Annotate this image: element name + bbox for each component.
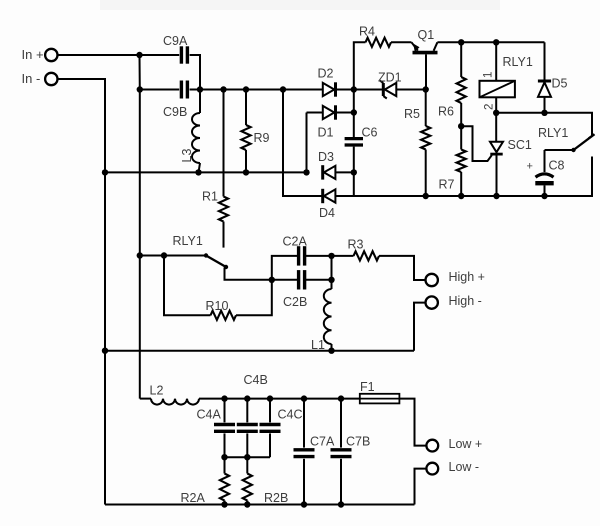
terminal High+ <box>426 270 485 286</box>
svg-text:C4A: C4A <box>197 408 222 422</box>
capacitor C2B <box>283 270 332 309</box>
relay switch RLY1 right <box>538 126 595 152</box>
node C4C top <box>267 395 273 401</box>
node L3 bottom <box>195 169 201 175</box>
resistor R2B <box>243 457 289 505</box>
svg-text:C2B: C2B <box>283 295 307 309</box>
node D2/ZD1/C6 <box>351 86 357 92</box>
node C9B left <box>137 86 143 92</box>
svg-text:Low +: Low + <box>449 437 483 451</box>
thyristor SC1 <box>490 113 532 196</box>
svg-text:R10: R10 <box>206 299 229 313</box>
capacitor C2A <box>272 235 332 280</box>
node R6 top <box>458 39 464 45</box>
svg-text:C7B: C7B <box>346 435 370 449</box>
node R6/R7 <box>458 123 464 129</box>
inductor L1 <box>311 280 332 352</box>
node C4A top <box>221 395 227 401</box>
wire AC node row <box>105 171 307 173</box>
svg-text:R2B: R2B <box>264 491 288 505</box>
node ZD1/Q1 base/R5 <box>423 86 429 92</box>
node C7B top <box>338 395 344 401</box>
node R7 bottom <box>458 193 464 199</box>
svg-text:C6: C6 <box>362 126 378 140</box>
capacitor C4A <box>197 399 236 458</box>
svg-text:ZD1: ZD1 <box>378 71 402 85</box>
node C4B top <box>244 395 250 401</box>
node C7A bottom <box>301 501 307 507</box>
svg-text:D4: D4 <box>319 206 335 220</box>
node C2B right <box>328 277 334 283</box>
capacitor C9B <box>140 81 323 120</box>
node C7B bottom <box>338 501 344 507</box>
node R10 tap <box>161 252 167 258</box>
node L1 bottom <box>328 348 334 354</box>
capacitor C8 <box>527 150 565 196</box>
svg-text:R2A: R2A <box>181 491 206 505</box>
resistor R3 <box>332 238 426 281</box>
diode D3 <box>318 150 354 180</box>
resistor R6 <box>438 42 466 126</box>
node R9 bottom <box>243 169 249 175</box>
svg-text:L2: L2 <box>150 384 164 398</box>
svg-text:C7A: C7A <box>310 435 335 449</box>
wire relay row <box>140 255 206 257</box>
svg-text:1: 1 <box>483 72 495 78</box>
capacitor C7B <box>331 399 371 505</box>
svg-text:R7: R7 <box>439 178 455 192</box>
node D5 bottom <box>541 110 547 116</box>
resistor R1 <box>202 90 228 248</box>
node D1 cathode <box>351 109 357 115</box>
resistor R5 <box>404 90 430 197</box>
wire Low- return <box>415 469 427 505</box>
inductor L2 <box>140 384 360 405</box>
resistor R4 <box>354 25 412 90</box>
node coil bottom <box>493 110 499 116</box>
node C8 bottom <box>541 193 547 199</box>
node R9 top <box>243 86 249 92</box>
svg-text:D2: D2 <box>318 67 334 81</box>
node In+ rail top <box>136 52 142 58</box>
wire D2 out <box>337 89 384 91</box>
node C6 bottom <box>351 169 357 175</box>
node R2A bottom <box>221 501 227 507</box>
svg-text:C2A: C2A <box>283 235 308 249</box>
svg-text:SC1: SC1 <box>508 138 532 152</box>
node C2A right <box>328 253 334 259</box>
wire C4 bottom row <box>225 456 271 458</box>
svg-text:High -: High - <box>449 294 482 308</box>
transistor Q1 <box>412 28 545 90</box>
wire bottom row <box>105 504 415 506</box>
wire SC1 gate <box>461 126 492 161</box>
wire High- row <box>105 350 414 352</box>
svg-text:C4B: C4B <box>244 373 268 387</box>
capacitor C7A <box>294 399 335 505</box>
capacitor C4B <box>237 373 268 457</box>
wire bridge left rail <box>283 90 322 197</box>
node SC1 bottom <box>493 193 499 199</box>
node R2B top <box>244 454 250 460</box>
terminal Low- <box>426 460 479 475</box>
wire In+ rail <box>139 55 141 399</box>
svg-text:D3: D3 <box>318 150 334 164</box>
node coil top <box>493 39 499 45</box>
svg-text:C9B: C9B <box>163 105 187 119</box>
svg-text:C9A: C9A <box>163 34 188 48</box>
zener ZD1 <box>378 71 426 99</box>
diode D5 <box>538 42 568 113</box>
svg-text:R3: R3 <box>348 238 364 252</box>
svg-text:D5: D5 <box>552 77 568 91</box>
terminal In- <box>22 71 58 86</box>
diode D1 <box>307 105 354 139</box>
resistor R9 <box>241 90 269 173</box>
wire In- lead <box>58 79 105 505</box>
svg-text:C4C: C4C <box>278 408 303 422</box>
node R1 top <box>220 86 226 92</box>
diode D2 <box>318 67 336 97</box>
wire High- return <box>414 303 425 351</box>
svg-text:F1: F1 <box>360 380 375 394</box>
svg-text:2: 2 <box>484 104 496 110</box>
wire switch contact drop <box>225 268 298 280</box>
relay coil RLY1 <box>480 42 533 113</box>
wire D1 anode riser <box>306 113 308 173</box>
node R2B bottom <box>244 501 250 507</box>
svg-text:Low -: Low - <box>449 460 480 474</box>
node In- / High- row tap <box>102 348 108 354</box>
svg-text:Q1: Q1 <box>418 28 435 42</box>
svg-text:L3: L3 <box>180 149 194 163</box>
node C2 junction <box>269 277 275 283</box>
relay switch RLY1 left <box>173 234 229 269</box>
node C7A top <box>301 395 307 401</box>
capacitor C9A <box>140 34 201 90</box>
svg-text:C8: C8 <box>549 159 565 173</box>
fuse F1 <box>360 380 400 403</box>
svg-text:In +: In + <box>22 47 44 62</box>
svg-text:R5: R5 <box>404 107 420 121</box>
svg-text:+: + <box>527 161 533 173</box>
svg-text:R9: R9 <box>254 131 270 145</box>
svg-text:R6: R6 <box>438 105 454 119</box>
node D1/D3 <box>303 169 309 175</box>
svg-text:R1: R1 <box>202 190 218 204</box>
svg-text:In -: In - <box>22 71 41 86</box>
resistor R2A <box>181 457 230 505</box>
capacitor C6 <box>345 90 378 197</box>
svg-text:High +: High + <box>449 270 485 284</box>
wire C2 right link <box>331 256 333 280</box>
diode D4 <box>319 157 592 221</box>
node L3 top <box>197 86 203 92</box>
resistor R10 <box>164 256 272 320</box>
svg-text:RLY1: RLY1 <box>173 234 203 248</box>
node R5 bottom <box>423 193 429 199</box>
svg-text:RLY1: RLY1 <box>503 55 533 69</box>
pin 2 label <box>484 104 496 110</box>
svg-text:RLY1: RLY1 <box>538 126 568 140</box>
node R2A top <box>221 454 227 460</box>
svg-text:D1: D1 <box>318 126 334 140</box>
wire F1 to Low+ <box>399 399 426 446</box>
terminal In+ <box>22 47 58 62</box>
pin 1 label <box>483 72 495 78</box>
wire coil bottom row <box>496 113 592 139</box>
resistor R7 <box>439 126 466 196</box>
node bridge left rail top <box>280 86 286 92</box>
node In- / AC tap <box>102 169 108 175</box>
node rail/relay <box>137 252 143 258</box>
capacitor C4C <box>260 399 303 458</box>
terminal Low+ <box>426 437 482 452</box>
inductor L3 <box>180 90 200 173</box>
terminal High- <box>426 294 482 309</box>
wire In+ lead <box>58 54 140 56</box>
svg-text:R4: R4 <box>359 25 375 39</box>
